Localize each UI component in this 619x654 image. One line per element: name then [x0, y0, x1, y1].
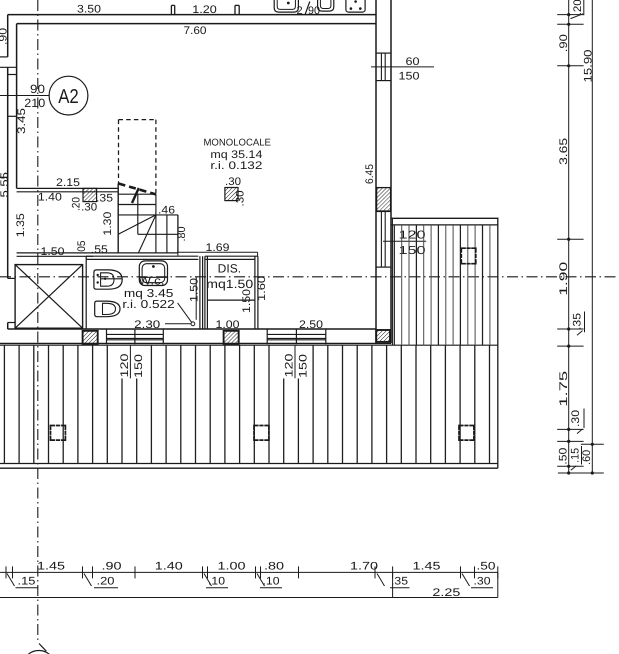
window right glass lines — [380, 212, 382, 268]
left door jamb y=74.5 — [8, 74, 17, 76]
svg-text:.20: .20 — [572, 0, 584, 15]
svg-text:5.55: 5.55 — [0, 172, 11, 198]
svg-text:.30: .30 — [225, 176, 241, 188]
svg-text:1.60: 1.60 — [256, 276, 268, 301]
stair left wall — [117, 184, 119, 253]
svg-text:120: 120 — [119, 354, 131, 378]
axis grid line horizontal (y=276.8) — [0, 276, 619, 278]
svg-text:1.50: 1.50 — [241, 289, 253, 313]
svg-text:DIS.: DIS. — [218, 261, 241, 275]
stair winder diagonal 2 — [138, 215, 156, 253]
svg-text:.90: .90 — [558, 34, 570, 52]
svg-text:.15: .15 — [570, 448, 582, 463]
dim chain right line A — [568, 0, 570, 473]
svg-text:MONOLOCALE: MONOLOCALE — [203, 137, 271, 148]
svg-text:.10: .10 — [208, 576, 225, 588]
washbasin — [139, 261, 167, 286]
stair right flight verticals — [155, 194, 157, 253]
svg-text:W.c.: W.c. — [139, 275, 165, 287]
window sill box bottom-right (room window 120) — [266, 329, 268, 344]
svg-text:.30: .30 — [474, 576, 491, 588]
wall bottom bottom edge — [0, 342, 391, 344]
deck right top edge band — [392, 217, 499, 219]
svg-text:150: 150 — [133, 354, 145, 378]
kitchen sink small — [318, 0, 334, 11]
wall top outer edge / dimension line — [8, 14, 376, 16]
bathroom right wall — [199, 256, 201, 329]
column hatched closet wall — [83, 188, 97, 201]
dim chain bottom slashes — [7, 574, 15, 587]
svg-text:.30: .30 — [235, 191, 247, 207]
left wall connector y=67.3 — [0, 66, 17, 68]
stair cut tick stroke — [132, 188, 139, 203]
svg-text:3.50: 3.50 — [77, 4, 101, 16]
svg-text:1.00: 1.00 — [218, 561, 246, 573]
dim chain bottom ticks — [5, 566, 7, 578]
svg-text:1.50: 1.50 — [41, 246, 65, 258]
svg-text:120: 120 — [284, 354, 296, 378]
window kitchen sill bottom — [376, 80, 391, 82]
svg-text:.90: .90 — [0, 28, 9, 45]
deck top edge line full width — [0, 344, 498, 346]
svg-text:7.60: 7.60 — [184, 25, 207, 37]
bidet — [94, 270, 122, 289]
svg-text:90: 90 — [30, 82, 45, 96]
underlines small labels right chain — [583, 0, 585, 15]
svg-text:.35: .35 — [572, 313, 584, 330]
svg-text:.35: .35 — [391, 576, 408, 588]
leader 2.30 line — [165, 323, 191, 325]
deck bottom edge double line — [0, 463, 498, 465]
dim chain bottom extended ticks for 2.25 — [392, 572, 394, 597]
svg-text:150: 150 — [399, 71, 420, 83]
stair dashed outline above cut — [119, 119, 156, 121]
stair treads upper flight — [118, 193, 156, 195]
svg-text:1.00: 1.00 — [216, 319, 240, 331]
door leader line 90/210 — [0, 95, 49, 97]
dis top wall — [205, 255, 258, 257]
shaft wall connectors to left wall — [8, 277, 15, 279]
svg-text:.46: .46 — [158, 204, 175, 216]
svg-text:.80: .80 — [264, 561, 284, 573]
left door jamb y=116.3 — [8, 115, 17, 117]
dim chain right line B — [591, 0, 593, 473]
svg-text:.50: .50 — [477, 561, 496, 573]
deck bottom planks — [3, 345, 5, 463]
deck post right dashed — [461, 248, 476, 264]
window kitchen glass lines — [380, 53, 382, 81]
column hatched bottom wall mid — [224, 331, 239, 344]
svg-text:.50: .50 — [558, 448, 570, 465]
underlines small labels bottom chain — [16, 587, 38, 589]
svg-text:r.i. 0.522: r.i. 0.522 — [122, 299, 174, 311]
svg-text:2.15: 2.15 — [56, 177, 80, 189]
svg-text:1.90: 1.90 — [558, 262, 570, 296]
left wall tick y=177.3 — [0, 176, 8, 178]
dim chain lower line — [0, 597, 498, 599]
svg-text:3.65: 3.65 — [558, 138, 570, 165]
svg-text:15.90: 15.90 — [582, 50, 594, 83]
right chain A ticks — [557, 14, 583, 16]
dis divider line — [207, 299, 255, 301]
svg-text:1.20: 1.20 — [192, 4, 217, 16]
wall stub above top wall left — [170, 5, 172, 14]
wall stub above top wall right — [234, 5, 236, 14]
svg-text:.20: .20 — [97, 576, 115, 588]
right chains bottom line — [558, 472, 604, 474]
svg-text:1.30: 1.30 — [102, 212, 114, 236]
dim line 1.50 bathroom vertical — [195, 277, 197, 320]
svg-text:.90: .90 — [102, 561, 122, 573]
wall bottom top edge — [8, 328, 376, 330]
kitchen sink large — [274, 0, 298, 12]
shaft box with X (elevator) — [15, 265, 83, 329]
svg-text:150: 150 — [298, 354, 310, 378]
window right 120/150 sill top — [376, 211, 391, 213]
right chain slashes — [571, 14, 584, 19]
toilet — [95, 301, 120, 317]
svg-text:1.50: 1.50 — [188, 278, 200, 302]
svg-text:1.35: 1.35 — [15, 213, 27, 237]
svg-text:.10: .10 — [263, 576, 280, 588]
svg-text:120: 120 — [399, 229, 426, 241]
svg-text:1.69: 1.69 — [206, 242, 230, 254]
wall left inner edge — [16, 24, 18, 189]
wall right inner edge x=376 — [375, 0, 377, 343]
svg-text:.60: .60 — [581, 450, 593, 465]
dis right wall — [254, 256, 256, 329]
wall left outer edge segments — [7, 15, 9, 57]
window kitchen 60/150 sill top — [376, 52, 391, 54]
kitchen stove — [346, 0, 365, 12]
deck left edge double line at building — [391, 218, 393, 345]
svg-text:.35: .35 — [96, 192, 113, 204]
dim chain bottom main line — [0, 571, 498, 573]
svg-text:1.45: 1.45 — [413, 561, 441, 573]
svg-text:1.40: 1.40 — [38, 191, 62, 203]
svg-text:150: 150 — [399, 245, 426, 257]
stair cut break line (thick dashed) — [119, 184, 156, 195]
closet top wall — [17, 187, 119, 189]
axis grid line vertical 2 (x=37.8) — [37, 0, 39, 644]
stair mid horizontal y=234.3 — [138, 233, 178, 235]
deck post 2 dashed — [254, 426, 269, 441]
closet bottom wall / stair bottom — [17, 252, 178, 254]
axis bubble bottom (cut off) — [22, 651, 55, 654]
svg-text:mq1.50: mq1.50 — [206, 277, 253, 291]
wall top inner edge — [17, 23, 376, 25]
dim 1.69 line — [178, 251, 258, 253]
svg-text:2.30: 2.30 — [134, 319, 160, 331]
column hatched bottom wall left — [83, 331, 98, 344]
svg-text:2: 2 — [296, 5, 302, 17]
svg-text:r.i. 0.132: r.i. 0.132 — [210, 160, 262, 172]
deck post 1 dashed — [51, 426, 66, 441]
svg-text:A2: A2 — [58, 86, 79, 108]
stair winder diagonal 1 — [118, 215, 156, 234]
svg-text:2.50: 2.50 — [299, 319, 323, 331]
shaft right double line — [85, 256, 87, 259]
svg-text:60: 60 — [406, 56, 420, 68]
svg-text:.30: .30 — [81, 201, 97, 213]
svg-text:1.75: 1.75 — [558, 371, 570, 407]
stair riser vertical x=137.8 — [137, 194, 139, 234]
svg-text:1.70: 1.70 — [350, 561, 378, 573]
svg-text:.15: .15 — [18, 576, 36, 588]
svg-text:2.25: 2.25 — [432, 587, 460, 599]
bathroom left wall line — [85, 259, 87, 329]
window sill box bottom-left (bath window 120) — [106, 329, 108, 344]
wall right outer edge x=391 — [390, 0, 392, 343]
svg-text:3.45: 3.45 — [16, 108, 28, 134]
right chain B ticks — [581, 443, 604, 445]
deck post 3 dashed — [459, 426, 474, 441]
svg-text:mq 3.45: mq 3.45 — [124, 288, 174, 300]
svg-text:.30: .30 — [570, 410, 582, 427]
column hatched right wall bottom — [376, 330, 390, 342]
svg-text:.05: .05 — [76, 241, 88, 255]
left wall tick y=56.9 — [0, 56, 8, 58]
svg-text:.55: .55 — [91, 244, 108, 256]
svg-text:1.45: 1.45 — [37, 561, 65, 573]
dis left wall — [204, 256, 206, 329]
column hatched right wall mid — [377, 188, 391, 211]
column hatched center room — [225, 188, 238, 201]
deck right edge vertical — [497, 218, 499, 468]
bubble A2 circle — [49, 76, 88, 115]
window right sill bottom — [376, 266, 391, 268]
svg-text:1.40: 1.40 — [155, 561, 183, 573]
bathroom top wall — [86, 255, 198, 257]
svg-text:.80: .80 — [176, 227, 188, 242]
deck right planks — [393, 225, 395, 345]
svg-text:6.45: 6.45 — [364, 164, 376, 184]
